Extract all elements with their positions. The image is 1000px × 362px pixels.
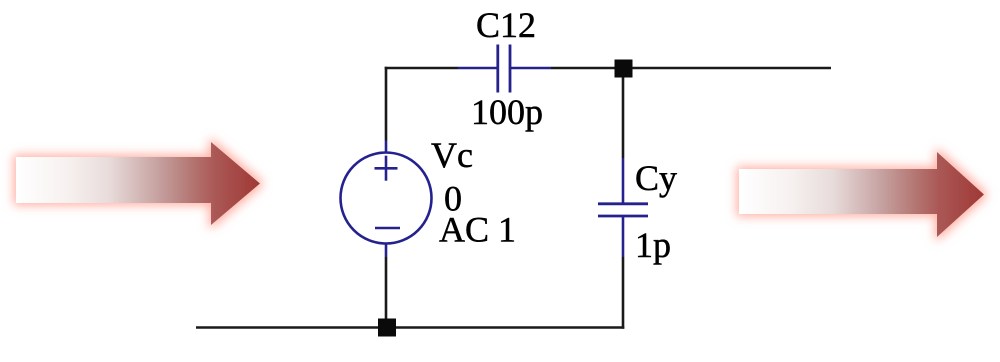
svg-text:Cy: Cy	[635, 158, 677, 198]
svg-text:C12: C12	[476, 5, 536, 45]
capacitor C12	[458, 45, 551, 93]
voltage source Vc	[341, 141, 432, 258]
wire right vertical upper (junction to Cy)	[622, 78, 625, 159]
svg-text:100p: 100p	[471, 92, 543, 132]
wire right vertical lower (Cy to bottom wire)	[622, 257, 625, 329]
svg-text:AC 1: AC 1	[439, 210, 516, 250]
junction node top (square)	[615, 60, 633, 78]
wire top-left horizontal (node top to C12 left lead)	[385, 67, 458, 70]
arrow left (input flow)	[16, 142, 260, 225]
wire bottom horizontal (ground rail)	[196, 326, 624, 329]
wire left-lower vertical (source to bottom wire)	[385, 257, 388, 328]
junction node bottom (square)	[378, 319, 396, 337]
wire top-middle horizontal (C12 right lead to junction)	[551, 67, 623, 70]
capacitor Cy	[598, 158, 648, 257]
wire top-right horizontal (junction to right edge)	[623, 67, 831, 70]
svg-text:1p: 1p	[635, 225, 671, 265]
svg-text:Vc: Vc	[431, 135, 473, 175]
wire left vertical (top wire down to source)	[385, 67, 388, 141]
arrow right (output flow)	[739, 152, 984, 237]
